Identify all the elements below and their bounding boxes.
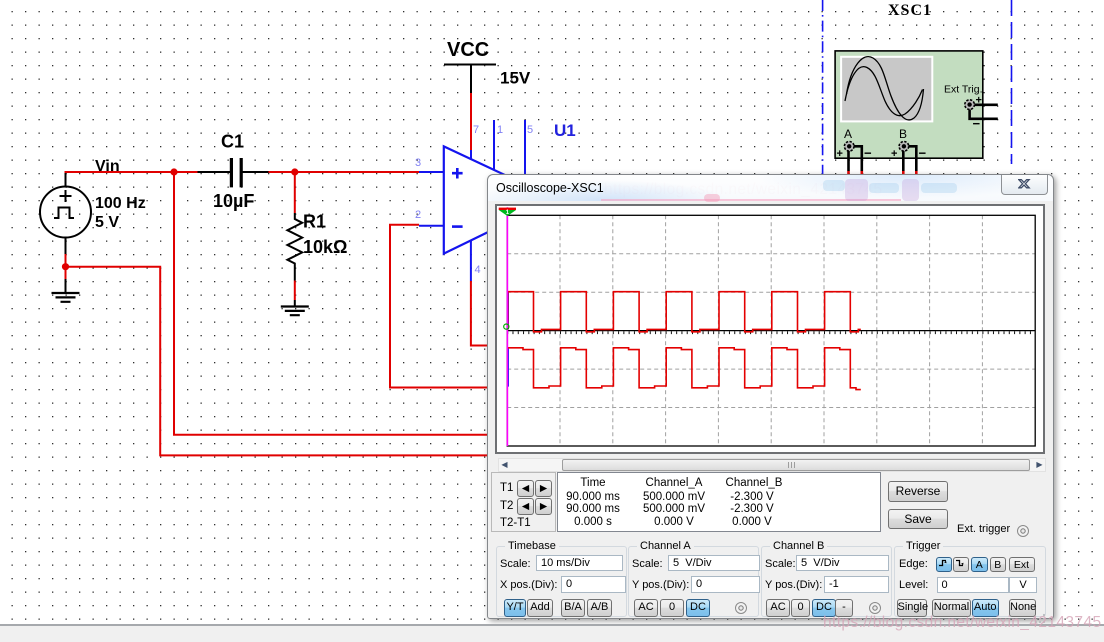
wire: node down to R1 (red): [294, 172, 296, 213]
pin 5 stub: [524, 120, 526, 186]
wire: source top lead (black): [65, 172, 67, 187]
wire: inverting input feedback (red): [390, 224, 492, 388]
wire: pin 4 down (red, hidden by dialog): [471, 281, 492, 346]
svg-text:+: +: [891, 148, 897, 160]
svg-text:4: 4: [475, 264, 481, 276]
wire: source bottom lead: [65, 238, 67, 294]
terminal B: [891, 127, 927, 161]
wire: scope A minus lead: [854, 146, 862, 175]
svg-text:10kΩ: 10kΩ: [303, 237, 347, 257]
label 5 V: [95, 214, 119, 231]
pin number 7: [473, 124, 479, 136]
wire: Vin node to C1 (red): [65, 171, 198, 173]
pin number 5: [527, 124, 533, 136]
pin 3 stub: [419, 171, 444, 173]
svg-text:3: 3: [415, 157, 421, 169]
page boundary dash-dot line left: [822, 0, 824, 175]
svg-text:U1: U1: [554, 121, 576, 140]
svg-text:7: 7: [473, 124, 479, 136]
label Ext Trig: [944, 84, 983, 96]
pin number 1: [497, 124, 503, 136]
svg-text:−: −: [919, 146, 927, 161]
svg-text:1: 1: [497, 124, 503, 136]
label Vin: [95, 158, 120, 175]
source V1 (square-wave source): [40, 187, 91, 238]
node junction at C1/R1: [291, 168, 298, 175]
label 10kOhm: [303, 237, 347, 257]
node junction at Vin/feedback: [170, 168, 177, 175]
resistor R1: [287, 213, 302, 281]
label VCC: [447, 39, 489, 61]
ground under source: [52, 293, 80, 302]
svg-text:15V: 15V: [500, 69, 531, 88]
svg-text:5: 5: [527, 124, 533, 136]
svg-text:R1: R1: [303, 212, 326, 232]
node junction at source bottom: [62, 263, 69, 270]
pin 4 stub: [470, 241, 472, 281]
label 100 Hz: [95, 195, 146, 212]
wire: VCC to pin 7 (red): [470, 93, 472, 150]
oscilloscope icon XSC1: [835, 51, 983, 158]
wire: Vin node feedback run (red, long L): [174, 172, 492, 435]
wire: R1 to ground (red+black): [294, 281, 296, 307]
pin 7 stub: [470, 149, 472, 160]
wire: ext trig stubs: [970, 105, 998, 119]
terminal Ext Trig plus: [965, 95, 982, 132]
capacitor C1: [198, 158, 269, 187]
svg-text:+: +: [837, 148, 843, 160]
svg-text:5 V: 5 V: [95, 214, 119, 231]
wire: C1 to op-amp node (red): [269, 171, 420, 173]
page boundary dash line right: [1011, 0, 1013, 164]
label R1: [303, 212, 326, 232]
label 15V: [500, 69, 531, 88]
label C1: [221, 132, 244, 152]
wire: ground net from source to scope (red, long L): [66, 267, 493, 456]
svg-text:100 Hz: 100 Hz: [95, 195, 146, 212]
svg-text:A: A: [844, 127, 852, 141]
VCC power symbol: [444, 65, 496, 94]
svg-text:2: 2: [415, 209, 421, 221]
svg-text:XSC1: XSC1: [888, 2, 932, 19]
op-amp U1: [444, 146, 556, 253]
wire: scope A plus lead: [847, 151, 850, 175]
wire: scope B plus lead: [902, 151, 905, 175]
pin number 4: [475, 264, 481, 276]
svg-text:C1: C1: [221, 132, 244, 152]
label 10uF: [213, 191, 254, 211]
svg-text:VCC: VCC: [447, 39, 489, 61]
svg-text:10µF: 10µF: [213, 191, 254, 211]
label U1: [554, 121, 576, 140]
terminal A: [837, 127, 873, 161]
pin 2 stub: [419, 225, 444, 227]
pin 1 stub: [493, 120, 495, 170]
pin number 2: [415, 209, 421, 221]
svg-text:−: −: [864, 146, 872, 161]
wire: scope B minus lead: [909, 146, 917, 175]
label XSC1: [888, 2, 932, 19]
svg-text:B: B: [899, 127, 907, 141]
pin number 3: [415, 157, 421, 169]
ground under R1: [281, 307, 309, 316]
